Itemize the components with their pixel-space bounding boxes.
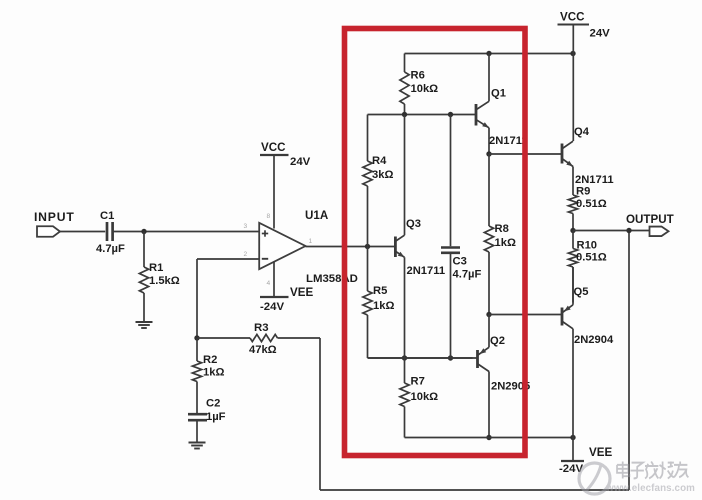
svg-text:R7: R7 [411,376,425,388]
svg-text:4.7µF: 4.7µF [96,243,125,255]
svg-text:2N2904: 2N2904 [574,334,614,346]
svg-text:0.51Ω: 0.51Ω [576,252,607,264]
svg-text:VEE: VEE [290,286,313,299]
svg-text:2N1711: 2N1711 [575,174,614,186]
svg-text:8: 8 [267,213,271,220]
svg-text:24V: 24V [290,156,311,168]
svg-text:2N1711: 2N1711 [407,265,446,277]
svg-text:47kΩ: 47kΩ [249,344,277,356]
svg-text:4.7µF: 4.7µF [453,269,482,281]
svg-text:1: 1 [309,238,313,245]
svg-text:1µF: 1µF [206,411,226,423]
svg-text:24V: 24V [590,28,611,40]
svg-text:R2: R2 [203,354,217,366]
svg-text:R9: R9 [576,186,590,198]
svg-text:R3: R3 [254,322,269,334]
svg-text:0.51Ω: 0.51Ω [576,198,607,210]
svg-text:Q1: Q1 [491,88,506,100]
svg-text:www.elecfans.com: www.elecfans.com [605,483,695,494]
svg-text:Q3: Q3 [406,218,421,230]
svg-text:3: 3 [244,223,248,230]
svg-text:U1A: U1A [305,209,329,222]
svg-text:1kΩ: 1kΩ [495,237,516,249]
svg-text:Q5: Q5 [574,286,589,298]
svg-text:VCC: VCC [261,141,286,154]
svg-text:C2: C2 [206,398,220,410]
svg-text:R1: R1 [149,262,163,274]
svg-text:1kΩ: 1kΩ [373,300,394,312]
svg-text:Q4: Q4 [574,126,590,138]
svg-text:4: 4 [267,280,271,287]
svg-text:R6: R6 [411,70,425,82]
svg-text:INPUT: INPUT [34,210,75,224]
svg-text:VCC: VCC [560,11,585,24]
svg-text:10kΩ: 10kΩ [411,83,439,95]
svg-text:R10: R10 [577,240,598,252]
svg-text:2N1711: 2N1711 [489,135,528,147]
svg-text:R8: R8 [495,223,509,235]
svg-text:VEE: VEE [589,446,612,459]
svg-text:1.5kΩ: 1.5kΩ [149,275,180,287]
svg-text:2: 2 [244,251,248,258]
svg-text:1kΩ: 1kΩ [203,367,224,379]
svg-text:R5: R5 [373,285,387,297]
svg-text:R4: R4 [372,155,387,167]
svg-text:-24V: -24V [260,301,284,313]
svg-text:3kΩ: 3kΩ [372,169,393,181]
svg-text:C1: C1 [100,210,114,222]
svg-text:10kΩ: 10kΩ [411,391,439,403]
svg-text:C3: C3 [453,256,467,268]
svg-text:Q2: Q2 [490,335,505,347]
svg-text:OUTPUT: OUTPUT [626,213,674,226]
svg-text:LM358AD: LM358AD [306,273,358,285]
